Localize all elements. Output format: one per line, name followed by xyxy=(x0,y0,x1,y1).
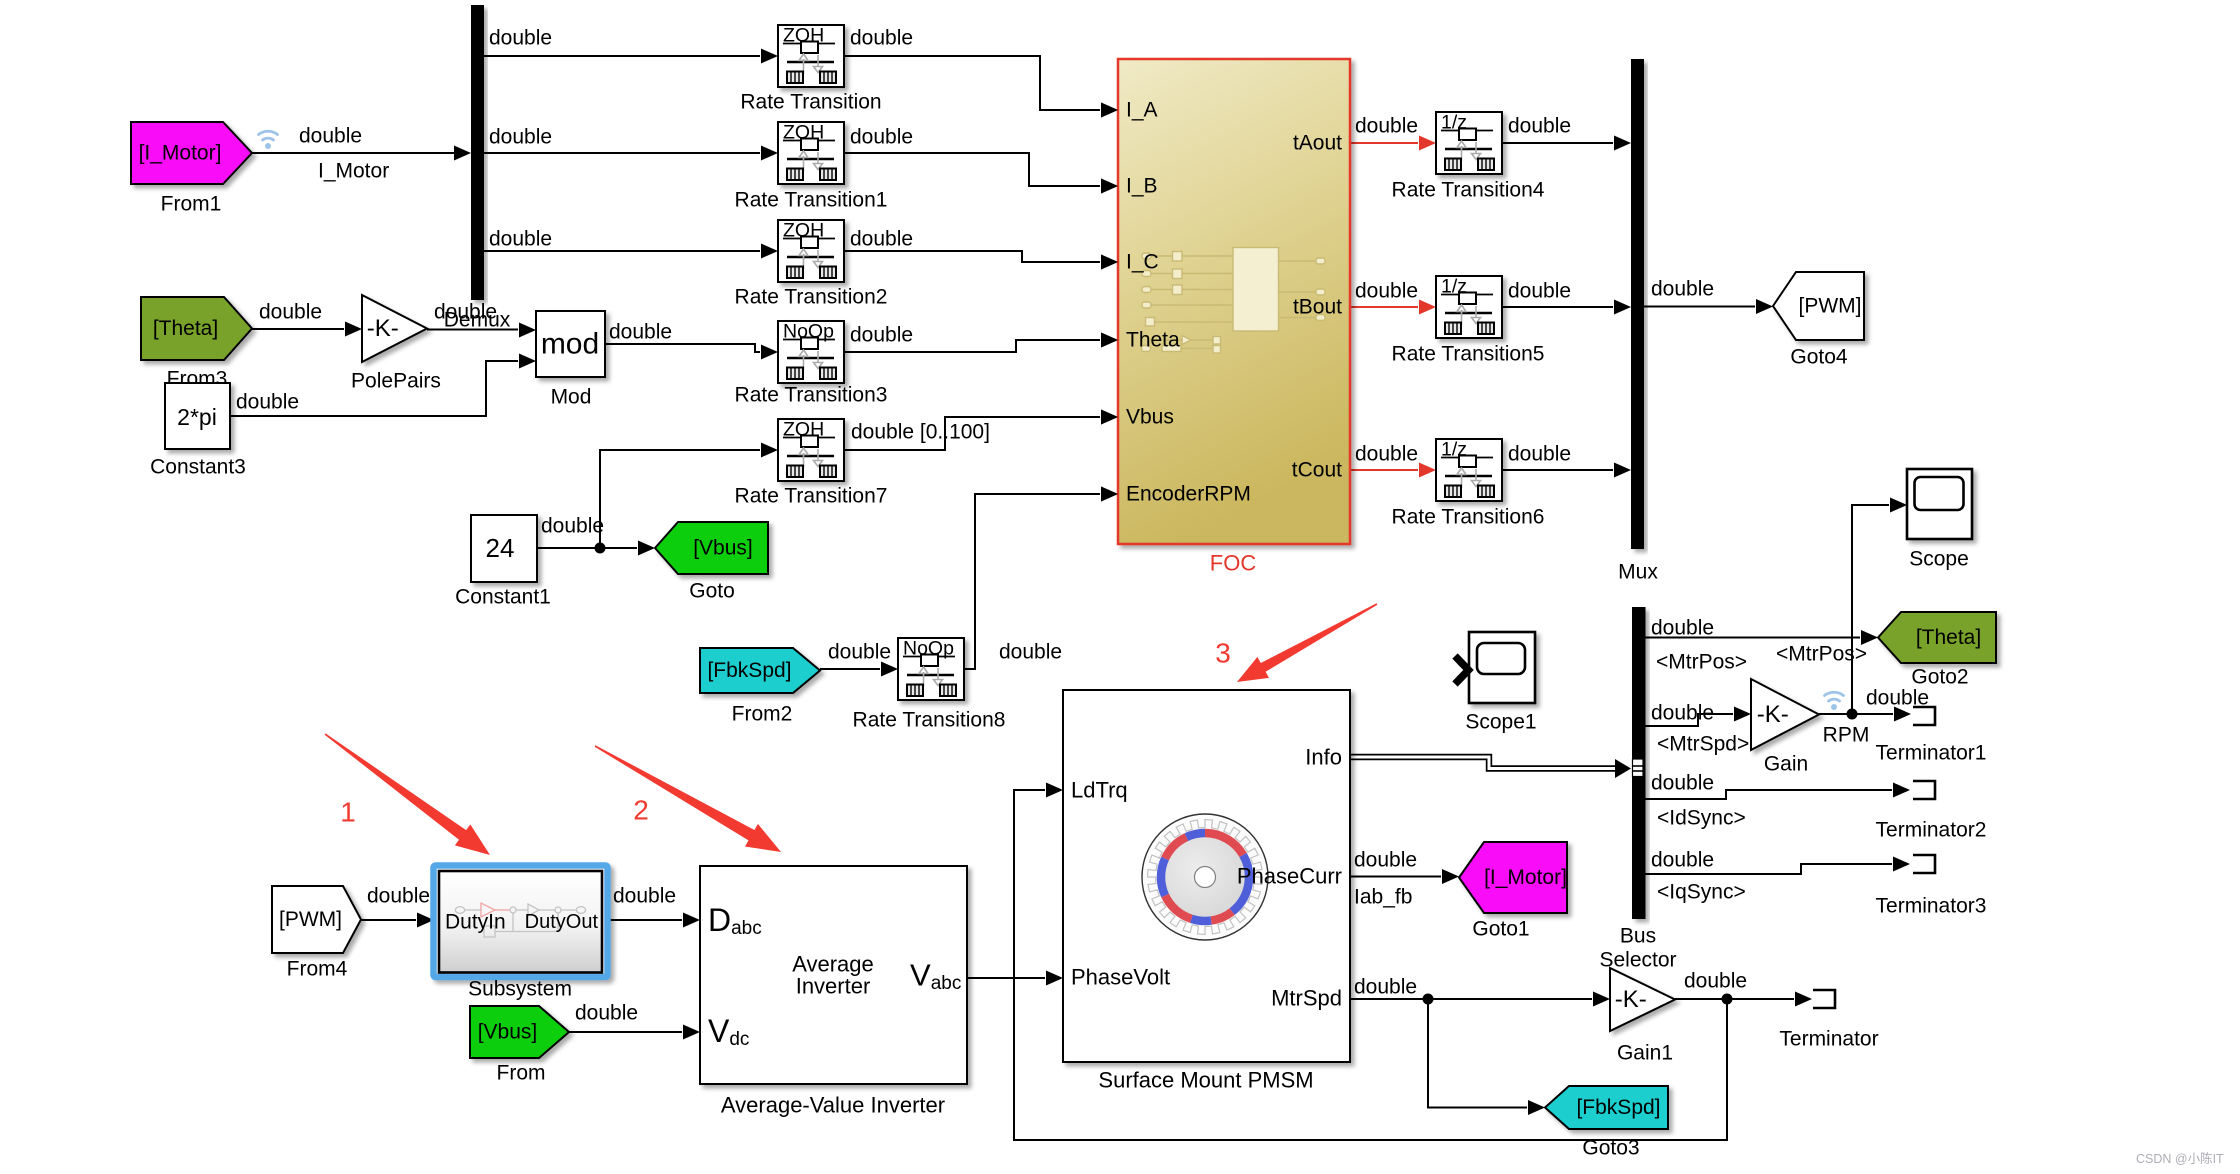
wire From1 to Demux xyxy=(252,152,454,154)
svg-text:Rate Transition3: Rate Transition3 xyxy=(735,384,888,407)
svg-text:double: double xyxy=(850,228,913,251)
svg-text:double: double xyxy=(1651,772,1714,795)
svg-text:double: double xyxy=(1651,278,1714,301)
svg-text:Rate Transition2: Rate Transition2 xyxy=(735,286,888,309)
svg-text:double: double xyxy=(1355,443,1418,466)
svg-text:tBout: tBout xyxy=(1293,296,1342,319)
From3 block [Theta] xyxy=(141,297,252,360)
wire Mod to Rate Transition3 xyxy=(605,344,760,352)
svg-text:double: double xyxy=(434,301,497,324)
wire Constant1 to Goto Vbus with branch to Rate Transition7 xyxy=(537,547,637,549)
Average-Value Inverter block xyxy=(700,866,967,1084)
PMSM motor icon xyxy=(1142,814,1268,940)
FOC subsystem block xyxy=(1118,59,1350,544)
Scope1 input port chevron xyxy=(1455,656,1469,684)
Goto block [Vbus] xyxy=(655,522,768,574)
svg-text:double: double xyxy=(1354,849,1417,872)
From4 block [PWM] xyxy=(272,886,361,953)
svg-text:I_C: I_C xyxy=(1126,251,1159,274)
svg-text:[I_Motor]: [I_Motor] xyxy=(139,142,222,165)
svg-text:Goto3: Goto3 xyxy=(1582,1137,1639,1160)
svg-text:double: double xyxy=(236,391,299,414)
svg-text:<IdSync>: <IdSync> xyxy=(1657,807,1746,830)
svg-text:Rate Transition7: Rate Transition7 xyxy=(735,485,888,508)
svg-text:mod: mod xyxy=(541,328,599,361)
svg-text:<MtrSpd>: <MtrSpd> xyxy=(1657,733,1749,756)
svg-text:RPM: RPM xyxy=(1823,724,1870,747)
junction Constant1 branch xyxy=(595,543,606,554)
Rate Transition8 block xyxy=(898,638,964,701)
wire Mux to Goto4 xyxy=(1644,306,1755,308)
svg-text:double: double xyxy=(1508,443,1571,466)
svg-text:DutyIn: DutyIn xyxy=(445,911,506,934)
svg-text:double: double xyxy=(1651,702,1714,725)
svg-text:tAout: tAout xyxy=(1293,132,1342,155)
junction RPM xyxy=(1847,709,1858,720)
wire FOC tAout to Rate Transition4 (red) xyxy=(1350,142,1418,144)
svg-text:Inverter: Inverter xyxy=(796,974,871,999)
junction Gain1 output xyxy=(1722,994,1733,1005)
svg-text:double: double xyxy=(1508,115,1571,138)
Rate Transition4 block xyxy=(1436,112,1502,175)
wire FOC tBout to Rate Transition5 (red) xyxy=(1350,306,1418,308)
svg-text:[PWM]: [PWM] xyxy=(279,908,342,931)
svg-text:Constant3: Constant3 xyxy=(150,456,246,479)
svg-text:Goto4: Goto4 xyxy=(1790,346,1848,369)
svg-text:Rate Transition: Rate Transition xyxy=(740,91,881,114)
wire Demux out2 to Rate Transition1 xyxy=(484,152,760,154)
svg-text:double: double xyxy=(1354,976,1417,999)
Terminator icon xyxy=(1813,990,1835,1008)
svg-text:Average-Value Inverter: Average-Value Inverter xyxy=(721,1093,945,1118)
svg-text:<IqSync>: <IqSync> xyxy=(1657,881,1746,904)
svg-text:double: double xyxy=(1651,849,1714,872)
Rate Transition5 block xyxy=(1436,276,1502,339)
wire Rate Transition to FOC I_A xyxy=(844,56,1100,110)
svg-text:Vbus: Vbus xyxy=(1126,406,1174,429)
svg-text:Rate Transition8: Rate Transition8 xyxy=(853,709,1006,732)
svg-text:tCout: tCout xyxy=(1292,459,1342,482)
svg-text:Goto2: Goto2 xyxy=(1911,666,1968,689)
svg-text:Scope: Scope xyxy=(1909,548,1969,571)
svg-text:FOC: FOC xyxy=(1210,551,1257,576)
svg-text:Iab_fb: Iab_fb xyxy=(1354,886,1412,909)
svg-text:Gain1: Gain1 xyxy=(1617,1042,1673,1065)
Scope1 block xyxy=(1469,632,1535,703)
svg-text:3: 3 xyxy=(1215,638,1231,669)
wire Subsystem to Average-Value Inverter Dabc xyxy=(607,919,682,921)
Constant1 block 24 xyxy=(471,515,537,582)
svg-text:Mod: Mod xyxy=(551,386,592,409)
wire BusSelector MtrPos to Goto2 xyxy=(1645,637,1860,639)
svg-text:2*pi: 2*pi xyxy=(177,404,217,430)
wire Rate Transition7 to FOC Vbus xyxy=(844,417,1100,450)
wire From2 to Rate Transition8 xyxy=(820,668,880,670)
svg-text:LdTrq: LdTrq xyxy=(1071,778,1128,803)
svg-text:double: double xyxy=(367,885,430,908)
Gain1 block xyxy=(1610,968,1675,1031)
Rate Transition7 block xyxy=(778,419,844,482)
svg-text:double: double xyxy=(489,126,552,149)
svg-text:[Vbus]: [Vbus] xyxy=(693,537,753,560)
wireless icon From1 xyxy=(259,131,278,149)
From block [Vbus] xyxy=(470,1006,569,1058)
Subsystem block with blue highlight xyxy=(434,866,608,978)
svg-text:PhaseCurr: PhaseCurr xyxy=(1237,864,1342,889)
wire Gain1 output feedback to PMSM LdTrq xyxy=(1014,790,1727,1140)
svg-text:Theta: Theta xyxy=(1126,329,1180,352)
svg-text:I_B: I_B xyxy=(1126,175,1158,198)
svg-text:double: double xyxy=(1651,617,1714,640)
svg-text:double: double xyxy=(613,885,676,908)
svg-text:Goto: Goto xyxy=(689,580,735,603)
Bus Selector input port indicator xyxy=(1633,759,1644,777)
svg-text:double: double xyxy=(850,324,913,347)
svg-text:Goto1: Goto1 xyxy=(1472,918,1529,941)
Rate Transition6 block xyxy=(1436,439,1502,502)
svg-text:From2: From2 xyxy=(732,703,793,726)
svg-text:Surface Mount PMSM: Surface Mount PMSM xyxy=(1098,1068,1313,1093)
Constant3 block 2*pi xyxy=(165,383,230,449)
From1 block [I_Motor] xyxy=(131,122,252,184)
Rate Transition3 block xyxy=(778,321,844,384)
svg-text:Bus: Bus xyxy=(1620,925,1656,948)
wire PMSM PhaseCurr to Goto1 xyxy=(1350,876,1441,878)
svg-text:From1: From1 xyxy=(161,193,222,216)
wireless icon RPM xyxy=(1825,692,1844,710)
svg-text:double: double xyxy=(850,126,913,149)
wire FOC tCout to Rate Transition6 (red) xyxy=(1350,469,1418,471)
svg-text:CSDN @小陈IT: CSDN @小陈IT xyxy=(2136,1151,2224,1166)
FOC input port arrows xyxy=(1101,103,1118,118)
Goto3 block [FbkSpd] xyxy=(1545,1086,1668,1129)
PolePairs gain xyxy=(362,295,427,362)
svg-text:<MtrPos>: <MtrPos> xyxy=(1776,643,1867,666)
svg-text:double: double xyxy=(1355,115,1418,138)
svg-text:-K-: -K- xyxy=(1757,701,1789,728)
svg-text:double [0..100]: double [0..100] xyxy=(851,421,990,444)
svg-text:Rate Transition6: Rate Transition6 xyxy=(1392,506,1545,529)
Terminator2 icon xyxy=(1913,781,1935,799)
Mux bar xyxy=(1631,59,1644,549)
svg-text:Mux: Mux xyxy=(1618,561,1658,584)
svg-text:[Theta]: [Theta] xyxy=(153,317,218,340)
Surface Mount PMSM block xyxy=(1063,690,1350,1062)
wire Gain1 to Terminator xyxy=(1675,998,1794,1000)
svg-text:Info: Info xyxy=(1305,745,1342,770)
wire Rate Transition5 to Mux xyxy=(1502,306,1613,308)
Rate Transition1 block xyxy=(778,122,844,185)
wire From4 to Subsystem xyxy=(361,919,416,921)
svg-text:double: double xyxy=(541,515,604,538)
svg-text:Rate Transition4: Rate Transition4 xyxy=(1392,179,1545,202)
svg-text:double: double xyxy=(1684,970,1747,993)
svg-text:PhaseVolt: PhaseVolt xyxy=(1071,965,1170,990)
wire MtrSpd branch to Goto3 xyxy=(1428,999,1527,1108)
annotation arrow 2 xyxy=(595,745,781,852)
svg-text:2: 2 xyxy=(633,795,649,826)
wire BusSelector MtrSpd to Gain xyxy=(1645,714,1733,726)
svg-text:Terminator: Terminator xyxy=(1779,1028,1878,1051)
wire From Vbus to Average-Value Inverter Vdc xyxy=(569,1031,682,1033)
svg-text:double: double xyxy=(1508,280,1571,303)
svg-text:-K-: -K- xyxy=(367,315,399,342)
svg-text:<MtrPos>: <MtrPos> xyxy=(1656,651,1747,674)
svg-text:DutyOut: DutyOut xyxy=(525,911,599,933)
svg-text:double: double xyxy=(489,228,552,251)
svg-text:-K-: -K- xyxy=(1615,986,1647,1013)
wire RPM junction to Scope xyxy=(1852,505,1889,714)
svg-text:Gain: Gain xyxy=(1764,753,1808,776)
wire Rate Transition6 to Mux xyxy=(1502,469,1613,471)
svg-text:Terminator2: Terminator2 xyxy=(1876,819,1987,842)
wire From3 to PolePairs xyxy=(252,328,344,330)
svg-text:double: double xyxy=(489,27,552,50)
Terminator3 icon xyxy=(1913,855,1935,873)
svg-text:Scope1: Scope1 xyxy=(1465,711,1536,734)
wire Constant3 to Mod in2 xyxy=(230,361,518,416)
bus wire PMSM Info to Bus Selector xyxy=(1350,757,1616,769)
svg-text:Terminator3: Terminator3 xyxy=(1876,895,1987,918)
wire PMSM MtrSpd to Gain1 xyxy=(1350,998,1592,1000)
svg-text:I_A: I_A xyxy=(1126,99,1158,122)
svg-text:[FbkSpd]: [FbkSpd] xyxy=(707,659,791,682)
wire Rate Transition8 to FOC EncoderRPM xyxy=(963,494,1100,669)
svg-text:double: double xyxy=(828,641,891,664)
wire BusSelector IdSync to Terminator2 xyxy=(1645,790,1892,799)
FOC inner faint diagram xyxy=(1142,248,1326,354)
svg-text:[FbkSpd]: [FbkSpd] xyxy=(1576,1096,1660,1119)
Rate Transition2 block xyxy=(778,220,844,283)
svg-text:[Vbus]: [Vbus] xyxy=(478,1021,538,1044)
Goto4 block [PWM] xyxy=(1773,272,1864,340)
svg-text:EncoderRPM: EncoderRPM xyxy=(1126,483,1251,506)
svg-text:1: 1 xyxy=(340,797,356,828)
Demux bar xyxy=(471,5,484,300)
Rate Transition block xyxy=(778,25,844,88)
annotation arrow 1 xyxy=(325,733,491,855)
svg-text:double: double xyxy=(850,27,913,50)
svg-text:Rate Transition1: Rate Transition1 xyxy=(735,189,888,212)
svg-text:double: double xyxy=(299,125,362,148)
annotation arrow 3 xyxy=(1237,603,1377,682)
svg-text:double: double xyxy=(259,301,322,324)
svg-text:[I_Motor]: [I_Motor] xyxy=(1484,866,1567,889)
wire BusSelector IqSync to Terminator3 xyxy=(1645,864,1892,874)
svg-text:double: double xyxy=(999,641,1062,664)
svg-text:[Theta]: [Theta] xyxy=(1916,626,1981,649)
junction MtrSpd branch xyxy=(1423,994,1434,1005)
Mod block xyxy=(536,311,605,377)
svg-text:From: From xyxy=(497,1062,546,1085)
Scope block xyxy=(1907,469,1972,539)
wire PolePairs to Mod in1 xyxy=(427,329,518,331)
wire Demux out1 to Rate Transition xyxy=(484,55,760,57)
svg-text:double: double xyxy=(575,1002,638,1025)
Bus Selector bar xyxy=(1632,607,1646,919)
wire Demux out3 to Rate Transition2 xyxy=(484,250,760,252)
Goto2 block [Theta] xyxy=(1878,612,1996,663)
svg-text:Rate Transition5: Rate Transition5 xyxy=(1392,343,1545,366)
svg-text:Constant1: Constant1 xyxy=(455,586,551,609)
svg-text:Terminator1: Terminator1 xyxy=(1876,742,1987,765)
svg-text:double: double xyxy=(1866,687,1929,710)
wire Average-Value Inverter Vabc to PMSM PhaseVolt xyxy=(967,977,1045,979)
svg-text:From4: From4 xyxy=(287,958,348,981)
svg-text:[PWM]: [PWM] xyxy=(1799,295,1862,318)
From2 block [FbkSpd] xyxy=(700,648,820,693)
svg-text:MtrSpd: MtrSpd xyxy=(1271,986,1342,1011)
wire Rate Transition4 to Mux xyxy=(1502,142,1613,144)
Goto1 block [I_Motor] xyxy=(1459,842,1567,913)
svg-text:24: 24 xyxy=(486,533,515,563)
svg-text:double: double xyxy=(1355,280,1418,303)
Terminator1 icon xyxy=(1913,707,1935,725)
svg-text:I_Motor: I_Motor xyxy=(318,160,389,183)
svg-text:Selector: Selector xyxy=(1599,949,1676,972)
svg-text:Subsystem: Subsystem xyxy=(468,978,572,1001)
Gain block xyxy=(1751,679,1819,750)
wire Rate Transition1 to FOC I_B xyxy=(844,153,1100,186)
wire Rate Transition3 to FOC Theta xyxy=(844,340,1100,352)
svg-text:PolePairs: PolePairs xyxy=(351,370,441,393)
svg-text:double: double xyxy=(609,321,672,344)
wire Rate Transition2 to FOC I_C xyxy=(844,251,1100,262)
wire Gain to Terminator1 xyxy=(1819,713,1893,715)
